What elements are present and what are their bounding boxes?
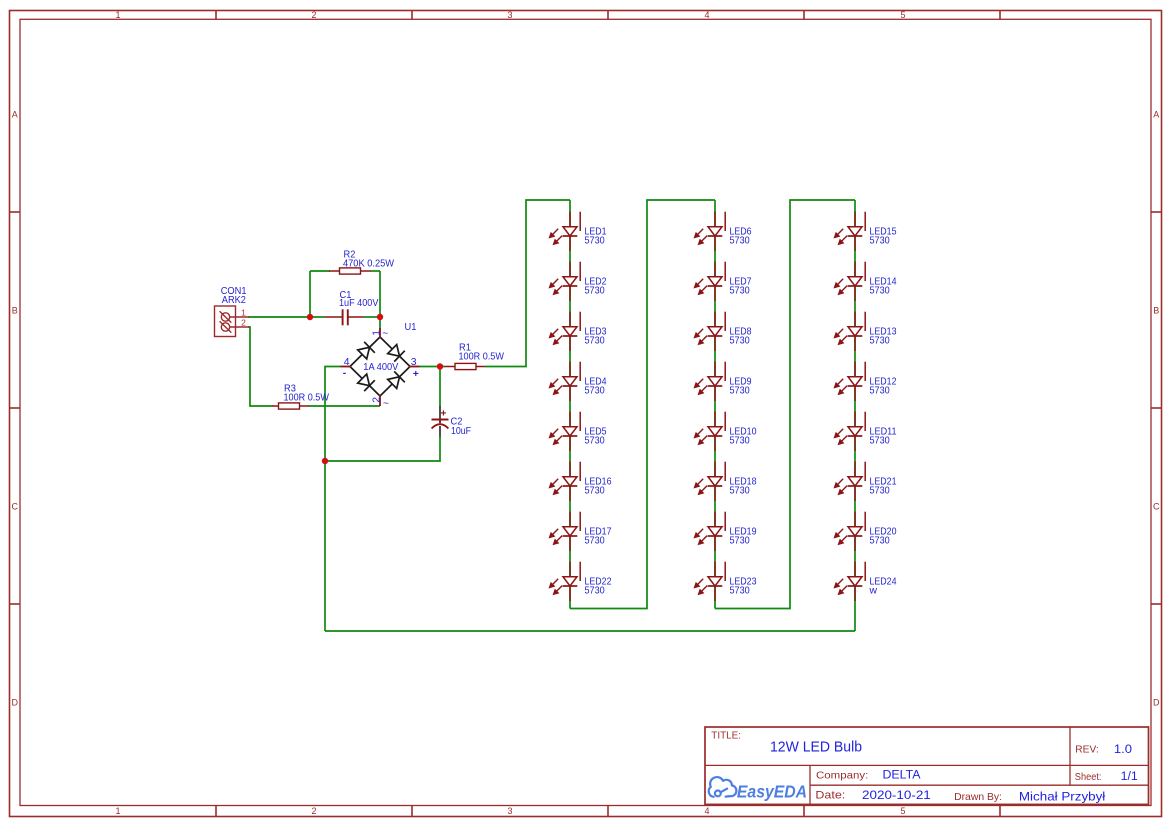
node D junction [322,458,328,464]
svg-text:5730: 5730 [585,335,605,346]
LED LED1 [550,212,607,252]
svg-text:470K 0.25W: 470K 0.25W [343,259,394,270]
connector CON1 [215,306,250,337]
U1 diode on bottom-left edge [358,374,370,386]
svg-text:5730: 5730 [870,285,890,296]
wire column1 bottom to column2 top riser [570,200,715,609]
svg-text:+: + [413,369,419,380]
U1 diode on top-left edge [358,347,370,359]
LED LED17 [550,512,612,552]
LED LED21 [835,462,897,502]
wire R2 row left [310,270,330,272]
wire node D to C2 bottom [325,436,440,461]
svg-text:A: A [12,110,18,120]
capacitor C2 (polarized) [432,406,472,437]
wire R3 to U1 pin2 [309,405,381,407]
svg-text:1uF 400V: 1uF 400V [339,298,378,309]
svg-text:5730: 5730 [870,235,890,246]
LED LED15 [835,212,897,252]
wire LED column 1 [569,200,571,609]
svg-text:1.0: 1.0 [1114,742,1132,756]
svg-text:5730: 5730 [585,285,605,296]
U1 pin 1 stub (top) [379,328,381,338]
LED LED23 [695,562,757,602]
svg-text:5730: 5730 [730,435,750,446]
svg-text:w: w [869,585,878,596]
svg-text:5730: 5730 [585,585,605,596]
svg-text:4: 4 [344,357,350,368]
wire bottom bus [325,630,855,632]
svg-text:B: B [1153,306,1159,316]
wire U1 pin3 to node C [419,366,445,368]
svg-text:2: 2 [311,10,316,20]
svg-text:Michał Przybył: Michał Przybył [1019,789,1106,803]
svg-text:5730: 5730 [585,485,605,496]
svg-text:C: C [11,502,18,512]
svg-text:12W LED Bulb: 12W LED Bulb [770,739,862,756]
svg-text:5730: 5730 [870,485,890,496]
wire node D down to bottom bus [324,461,326,631]
wire R2 down to node B [379,271,381,317]
svg-text:B: B [12,306,18,316]
svg-text:100R 0.5W: 100R 0.5W [284,393,330,404]
svg-text:3: 3 [507,10,512,20]
wire node B to U1 pin1 [379,317,381,329]
svg-text:Date:: Date: [815,790,845,802]
wire node A up to R2 row [309,271,311,318]
svg-text:1: 1 [241,308,246,318]
svg-text:5730: 5730 [730,485,750,496]
svg-text:2: 2 [371,397,382,403]
wire R2 row right [370,270,380,272]
svg-text:10uF: 10uF [451,426,471,437]
LED LED14 [835,262,897,302]
svg-text:5730: 5730 [730,235,750,246]
svg-text:5730: 5730 [870,435,890,446]
LED LED2 [550,262,607,302]
LED LED18 [695,462,757,502]
svg-text:REV:: REV: [1075,745,1098,756]
svg-text:3: 3 [411,357,417,368]
svg-text:+: + [440,407,446,419]
svg-text:5730: 5730 [870,535,890,546]
LED LED16 [550,462,612,502]
svg-text:1/1: 1/1 [1121,769,1138,783]
LED LED13 [835,312,897,352]
svg-text:~: ~ [382,329,388,340]
svg-text:Sheet:: Sheet: [1075,772,1102,783]
svg-text:5730: 5730 [730,385,750,396]
svg-text:A: A [1153,110,1159,120]
LED LED4 [550,362,607,402]
title block [705,727,1149,804]
LED LED6 [695,212,752,252]
svg-text:100R 0.5W: 100R 0.5W [459,352,505,363]
svg-text:TITLE:: TITLE: [711,730,741,741]
svg-text:ARK2: ARK2 [222,295,246,306]
LED LED24 [835,562,897,602]
wire CON1 pin1 to node A [248,316,310,318]
wire column2 bottom to column3 top riser [715,200,855,609]
capacitor C1 [325,290,378,325]
svg-text:1: 1 [371,330,382,336]
U1 pin 3 stub (right) [409,366,420,368]
LED LED12 [835,362,897,402]
CON1 pin 1 [230,316,250,318]
U1 diode on bottom-right edge [388,377,400,389]
LED LED11 [835,412,897,452]
wire node A to C1 [310,316,325,318]
svg-text:Drawn By:: Drawn By: [954,792,1002,803]
svg-text:5: 5 [900,10,905,20]
wire C1 to node B [364,316,380,318]
svg-text:5730: 5730 [730,285,750,296]
svg-text:-: - [343,368,347,379]
svg-text:5730: 5730 [730,585,750,596]
svg-text:5730: 5730 [585,435,605,446]
LED LED22 [550,562,612,602]
LED LED10 [695,412,757,452]
LED LED7 [695,262,752,302]
svg-text:5730: 5730 [870,335,890,346]
wire node C down to C2 top [439,367,441,408]
svg-text:Company:: Company: [816,770,868,782]
svg-text:5730: 5730 [585,385,605,396]
svg-text:2020-10-21: 2020-10-21 [862,789,931,802]
svg-text:D: D [1153,698,1160,708]
wire LED column 2 [714,200,716,609]
diode bridge U1 [341,322,420,409]
resistor R1 [445,363,485,369]
LED LED20 [835,512,897,552]
svg-text:4: 4 [704,10,709,20]
svg-text:4: 4 [704,806,709,816]
svg-text:3: 3 [507,806,512,816]
svg-text:5730: 5730 [870,385,890,396]
node C junction [437,363,443,369]
resistor R2 [329,268,371,274]
svg-text:1: 1 [115,10,120,20]
LED LED8 [695,312,752,352]
node B junction [377,314,383,320]
wire LED column 3 [854,200,856,631]
U1 pin 4 stub (left) [341,366,352,368]
svg-text:1A 400V: 1A 400V [363,362,398,373]
U1 pin 2 stub (bottom) [379,395,381,406]
resistor R3 [272,403,309,409]
svg-text:5730: 5730 [730,335,750,346]
LED LED19 [695,512,757,552]
svg-text:1: 1 [115,806,120,816]
svg-text:D: D [11,698,18,708]
node A junction [307,314,313,320]
wire CON1 pin2 down to R3 [248,327,273,406]
svg-text:DELTA: DELTA [883,767,922,781]
svg-text:5730: 5730 [730,535,750,546]
svg-text:2: 2 [241,318,246,328]
EasyEDA logo [709,777,737,797]
svg-text:5: 5 [900,806,905,816]
LED LED9 [695,362,752,402]
svg-text:5730: 5730 [585,535,605,546]
wire U1 pin4 to left bend [325,367,341,462]
svg-text:2: 2 [311,806,316,816]
CON1 pin 2 [230,326,250,328]
svg-text:5730: 5730 [585,235,605,246]
wire R1 to LED column 1 top [485,200,570,367]
U1 diode on top-right edge [388,345,400,357]
LED LED3 [550,312,607,352]
svg-text:U1: U1 [405,322,417,333]
svg-text:C: C [1153,502,1160,512]
LED LED5 [550,412,607,452]
svg-text:~: ~ [383,398,389,409]
svg-text:EasyEDA: EasyEDA [737,781,807,801]
